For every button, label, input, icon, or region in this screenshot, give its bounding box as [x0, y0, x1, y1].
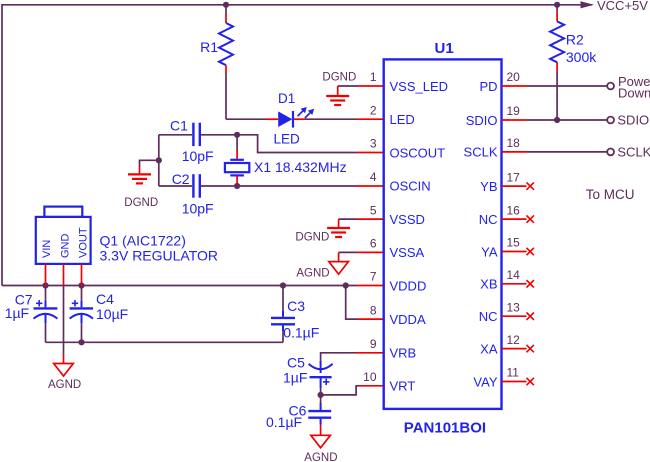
svg-text:OSCIN: OSCIN [390, 179, 431, 194]
svg-text:DGND: DGND [322, 72, 356, 84]
svg-text:C4: C4 [96, 291, 114, 307]
svg-text:2: 2 [370, 104, 377, 118]
svg-text:R2: R2 [566, 32, 584, 48]
pin 3 label [370, 137, 445, 161]
pin 19 label [466, 104, 520, 128]
svg-text:AGND: AGND [48, 379, 81, 391]
pin VOUT [81, 264, 83, 286]
svg-text:GND: GND [59, 234, 71, 259]
ground DGND pin1 [322, 72, 356, 105]
junction R1 top [223, 2, 229, 8]
ground AGND C6 [304, 435, 337, 462]
wire OSCIN pin 4 [237, 185, 384, 187]
svg-text:3: 3 [370, 137, 377, 151]
junction R2 SDIO [554, 117, 560, 123]
svg-text:VAY: VAY [473, 374, 497, 389]
svg-text:Down: Down [618, 85, 650, 100]
capacitor C6 [266, 395, 331, 435]
svg-text:10pF: 10pF [182, 201, 214, 217]
svg-text:YA: YA [481, 244, 498, 259]
junction node C3 [280, 282, 286, 288]
wire VRB pin 9 [321, 353, 384, 362]
pin 4 label [370, 170, 431, 194]
svg-text:SDIO: SDIO [617, 112, 649, 127]
pin 14 label [480, 268, 520, 292]
junction node VDDA branch [343, 282, 349, 288]
svg-text:C2: C2 [172, 171, 190, 187]
svg-text:10pF: 10pF [182, 148, 214, 164]
svg-text:DGND: DGND [295, 231, 329, 243]
svg-text:4: 4 [370, 170, 377, 184]
pin 20 label [479, 70, 520, 94]
svg-text:6: 6 [370, 237, 377, 251]
junction C4 bottom [78, 339, 84, 345]
ground DGND pin5 [295, 228, 350, 243]
svg-text:20: 20 [507, 70, 521, 84]
wire GND to AGND [63, 286, 65, 364]
power VCC+5V arrow [581, 0, 649, 13]
wire R1 to LED [226, 74, 266, 119]
terminal SCLK [607, 144, 650, 159]
pin 8 label [370, 303, 426, 327]
wire VRT pin 10 [321, 386, 384, 395]
svg-text:LED: LED [274, 131, 301, 146]
junction crystal bottom [234, 183, 240, 189]
svg-text:VOUT: VOUT [77, 227, 89, 258]
svg-text:9: 9 [370, 337, 377, 351]
svg-text:15: 15 [507, 236, 521, 250]
svg-text:AGND: AGND [304, 452, 337, 462]
ground AGND pin6 [296, 262, 348, 280]
pin 9 label [370, 337, 416, 361]
junction crystal top [234, 132, 240, 138]
svg-text:16: 16 [507, 203, 521, 217]
capacitor C4 [70, 286, 129, 343]
terminal Power Down [607, 74, 650, 100]
pin 18 label [464, 136, 521, 160]
svg-text:300k: 300k [566, 49, 597, 65]
svg-text:Q1 (AIC1722): Q1 (AIC1722) [100, 232, 186, 248]
pin 11 label [473, 366, 519, 390]
pin 6 label [370, 237, 425, 261]
svg-text:U1: U1 [435, 40, 454, 57]
wire SDIO pin 19 [502, 119, 608, 121]
wire pin 5 to DGND [339, 219, 384, 228]
svg-text:NC: NC [479, 309, 498, 324]
svg-text:VSSD: VSSD [390, 212, 425, 227]
svg-text:DGND: DGND [124, 197, 158, 209]
pin 2 label [370, 104, 415, 128]
LED D1 [266, 91, 305, 146]
svg-text:X1 18.432MHz: X1 18.432MHz [254, 159, 347, 175]
no-connect pin 12 [502, 345, 534, 352]
pin 15 label [481, 236, 520, 260]
svg-text:VRT: VRT [390, 379, 416, 394]
svg-text:0.1µF: 0.1µF [266, 414, 302, 430]
op-amp U1 chip body [384, 40, 502, 437]
ground DGND left [124, 174, 158, 209]
capacitor C1 [159, 117, 237, 163]
svg-text:VCC+5V: VCC+5V [597, 0, 648, 13]
wire 3.3V rail to VDDD pin 7 [2, 285, 384, 287]
svg-text:YB: YB [480, 179, 497, 194]
svg-text:C5: C5 [287, 354, 305, 370]
pin 1 label [370, 70, 448, 94]
wire to left DGND [140, 160, 159, 174]
junction C5 C6 node [318, 392, 324, 398]
svg-text:VDDD: VDDD [390, 278, 427, 293]
svg-text:8: 8 [370, 303, 377, 317]
pin 7 label [370, 270, 427, 294]
svg-text:VIN: VIN [41, 240, 53, 258]
svg-text:SCLK: SCLK [464, 145, 498, 160]
no-connect pin 16 [502, 215, 534, 222]
pin 5 label [370, 203, 425, 227]
svg-text:5: 5 [370, 203, 377, 217]
junction DGND branch [156, 157, 162, 163]
svg-text:11: 11 [507, 366, 520, 380]
svg-text:VRB: VRB [390, 346, 417, 361]
svg-text:10µF: 10µF [96, 306, 128, 322]
LED light arrows [298, 107, 315, 118]
wire C1-C2 left vertical [158, 135, 160, 186]
label To MCU [586, 187, 635, 202]
no-connect pin 17 [502, 182, 534, 189]
svg-text:D1: D1 [278, 91, 295, 106]
svg-text:19: 19 [507, 104, 521, 118]
svg-text:OSCOUT: OSCOUT [390, 145, 446, 160]
pin 16 label [479, 203, 520, 227]
svg-text:17: 17 [507, 170, 521, 184]
ground AGND Q1 [48, 364, 81, 392]
svg-text:R1: R1 [200, 39, 218, 55]
no-connect pin 14 [502, 280, 534, 287]
svg-text:1: 1 [370, 70, 377, 84]
junction node VIN [42, 282, 48, 288]
pin 17 label [480, 170, 520, 194]
svg-text:7: 7 [370, 270, 377, 284]
svg-text:12: 12 [507, 333, 521, 347]
pin 12 label [480, 333, 520, 357]
no-connect pin 13 [502, 313, 534, 320]
svg-text:NC: NC [479, 212, 498, 227]
svg-text:VSSA: VSSA [390, 245, 425, 260]
no-connect pin 15 [502, 248, 534, 255]
svg-text:0.1µF: 0.1µF [283, 324, 319, 340]
wire OSCOUT pin 3 [237, 135, 384, 153]
regulator Q1 [36, 207, 218, 264]
wire pin 6 to AGND [339, 252, 384, 261]
wire R2 to SDIO [556, 72, 558, 120]
junction node VOUT [78, 282, 84, 288]
svg-text:VSS_LED: VSS_LED [390, 79, 449, 94]
svg-text:PAN101BOI: PAN101BOI [404, 420, 486, 437]
svg-text:3.3V REGULATOR: 3.3V REGULATOR [100, 248, 219, 264]
capacitor C7 [5, 286, 58, 343]
wire PD pin 20 [502, 85, 608, 87]
svg-text:To MCU: To MCU [586, 187, 635, 202]
svg-text:XB: XB [480, 277, 497, 292]
capacitor C2 [159, 171, 237, 217]
svg-text:VDDA: VDDA [390, 312, 426, 327]
svg-text:13: 13 [507, 300, 521, 314]
no-connect pin 11 [502, 378, 534, 385]
capacitor C5 [283, 354, 333, 395]
capacitor C3 [271, 286, 319, 343]
svg-text:1µF: 1µF [5, 305, 29, 321]
svg-text:PD: PD [479, 79, 497, 94]
wire pin 1 to DGND [338, 86, 384, 96]
svg-text:LED: LED [390, 112, 415, 127]
terminal SDIO [607, 112, 649, 127]
wire SCLK pin 18 [502, 151, 608, 153]
wire ground bus bottom [46, 341, 284, 343]
wire left vertical from VCC rail [1, 4, 3, 286]
pin VIN [45, 264, 47, 286]
svg-text:AGND: AGND [296, 267, 329, 279]
wire LED to pin 2 [305, 118, 384, 120]
pin 10 label [363, 370, 415, 394]
svg-text:SCLK: SCLK [617, 144, 650, 159]
svg-text:C3: C3 [287, 298, 305, 314]
wire VCC+5V top rail [2, 4, 592, 6]
svg-text:SDIO: SDIO [466, 113, 498, 128]
svg-text:C1: C1 [170, 117, 188, 133]
svg-text:10: 10 [363, 370, 377, 384]
svg-text:18: 18 [507, 136, 521, 150]
resistor R1 [200, 5, 233, 74]
junction R2 top [554, 2, 560, 8]
pin 13 label [479, 300, 520, 324]
crystal X1 [225, 135, 347, 186]
svg-text:1µF: 1µF [283, 370, 307, 386]
svg-text:XA: XA [480, 341, 498, 356]
svg-text:14: 14 [507, 268, 521, 282]
wire VDDA branch pin 8 [346, 286, 384, 320]
pin GND [63, 264, 65, 286]
resistor R2 [550, 5, 597, 72]
